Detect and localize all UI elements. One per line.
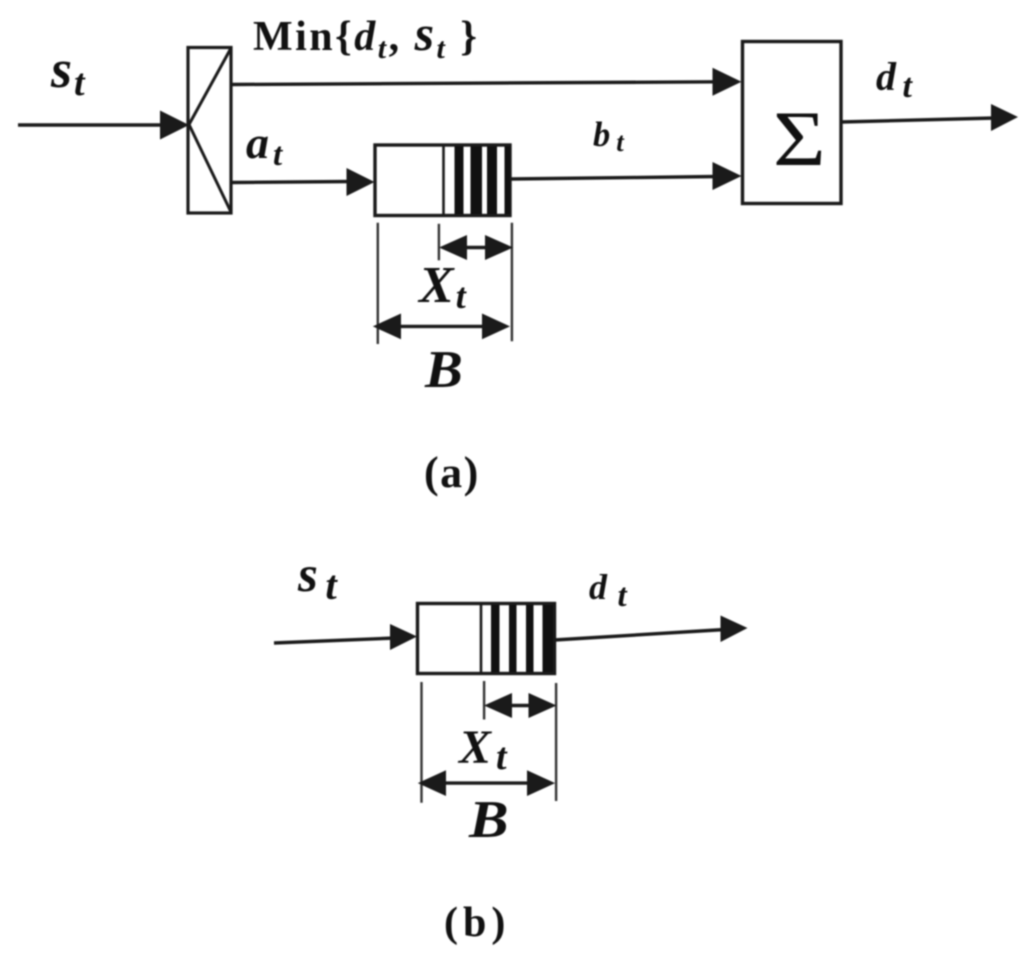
queue buffer block (figure b)	[418, 604, 555, 674]
svg-text:at: at	[246, 117, 283, 173]
wire: s_t input into queue (figure b)	[274, 624, 417, 650]
dimension line: left extension (figure a)	[377, 223, 379, 344]
node B (label, figure a)	[424, 340, 463, 399]
node B (label, figure b)	[468, 791, 509, 849]
svg-text:B: B	[468, 791, 509, 849]
wire: a_t from splitter into queue	[231, 168, 375, 196]
svg-text:(a): (a)	[424, 448, 480, 497]
dimension arrow B (figure b)	[418, 770, 555, 796]
dimension arrow X_t (figure b)	[484, 693, 557, 718]
splitter / demux block	[188, 48, 231, 214]
summation block U1 (sigma)	[743, 42, 842, 204]
wire: d_t output of queue (figure b)	[555, 616, 748, 643]
dimension arrow X_t (figure a)	[439, 235, 513, 260]
svg-text:(b): (b)	[444, 900, 510, 946]
svg-text:Σ: Σ	[773, 97, 826, 183]
dimension line: right extension (figure a)	[511, 223, 513, 341]
svg-text:st: st	[297, 547, 338, 608]
wire: Min{d_t,s_t} from splitter to summation	[231, 68, 742, 96]
wire: d_t output of summation	[841, 104, 1018, 131]
svg-text:bt: bt	[593, 116, 625, 157]
wire: b_t from queue to summation	[510, 162, 742, 190]
wire: input s_t arrow into splitter	[18, 111, 189, 140]
svg-text:B: B	[424, 340, 463, 399]
dimension line: middle extension (figure a)	[438, 224, 440, 260]
svg-text:dt: dt	[589, 567, 628, 614]
dimension line: right extension (figure b)	[555, 683, 557, 801]
svg-text:st: st	[50, 39, 86, 104]
svg-text:Min{dt, st }: Min{dt, st }	[253, 5, 479, 65]
dimension arrow B (figure a)	[373, 314, 510, 340]
svg-text:dt: dt	[876, 54, 914, 105]
svg-text:Xt: Xt	[417, 257, 467, 316]
svg-text:Xt: Xt	[457, 721, 508, 778]
dimension line: left extension (figure b)	[420, 682, 422, 803]
queue buffer block (figure a)	[375, 145, 510, 216]
dimension line: middle extension (figure b)	[483, 681, 485, 720]
